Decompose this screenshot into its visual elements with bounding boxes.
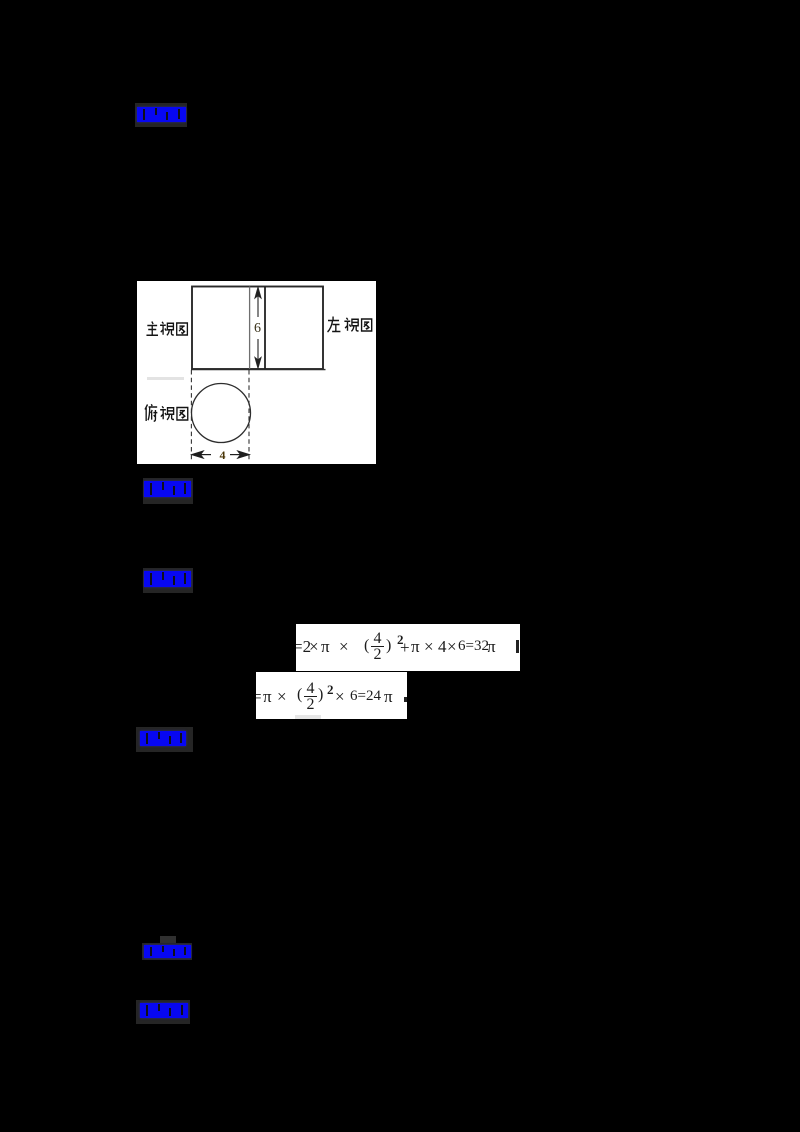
inner divider line (light) (249, 287, 251, 370)
label 左视图 (328, 317, 372, 333)
inner divider line (dark) (264, 287, 266, 370)
projection base line (191, 369, 326, 371)
vertical dimension arrow "6" (255, 288, 261, 369)
smudge artifact (147, 377, 184, 380)
formula image 2 (256, 672, 407, 719)
formula image 1 (296, 624, 520, 671)
label L3 blue tag (143, 568, 193, 593)
dashed projection line left (190, 370, 192, 460)
label L5 blue tag (142, 943, 192, 960)
label L6 blue tag (136, 1000, 190, 1024)
front/side view outer rectangle (192, 287, 323, 370)
top view circle (192, 384, 251, 443)
label L4 blue tag (136, 727, 193, 752)
label L2 blue tag (143, 478, 193, 504)
figure: three-view diagram white box (137, 281, 376, 464)
horizontal dimension arrows "4" (192, 451, 249, 458)
svg-text:4: 4 (220, 448, 226, 462)
dashed projection line right (248, 370, 250, 460)
svg-text:6: 6 (254, 321, 261, 336)
label L1 blue tag (135, 103, 187, 127)
label 俯视图 (145, 404, 188, 421)
label L5 gray artifact (160, 936, 176, 944)
label 主视图 (146, 322, 187, 336)
